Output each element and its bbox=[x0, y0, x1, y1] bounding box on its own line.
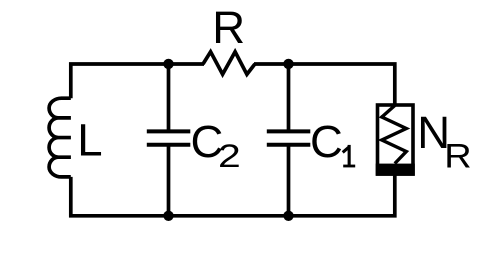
node: top-left junction bbox=[163, 59, 173, 69]
svg-text:C: C bbox=[310, 116, 343, 167]
wire: C2 branch top bbox=[167, 64, 171, 131]
wire: top rail right + down to NR box bbox=[254, 64, 395, 106]
node: top-right junction bbox=[283, 59, 293, 69]
nonlinear resistor NR: bottom bar bbox=[376, 164, 415, 176]
wire: left branch top + top rail to resistor bbox=[71, 64, 204, 98]
svg-text:R: R bbox=[212, 2, 245, 53]
node: bottom-right junction bbox=[283, 211, 293, 221]
inductor L bbox=[49, 98, 71, 177]
svg-text:L: L bbox=[77, 115, 102, 166]
nonlinear resistor NR: internal zigzag bbox=[382, 106, 407, 164]
wire: C2 branch bottom bbox=[167, 145, 171, 216]
resistor R (zigzag) bbox=[203, 52, 255, 75]
capacitor C1 bbox=[267, 131, 311, 144]
node: bottom-left junction bbox=[163, 211, 173, 221]
svg-text:R: R bbox=[444, 136, 471, 175]
capacitor C2 bbox=[147, 131, 191, 144]
wire: C1 branch bottom bbox=[287, 145, 291, 216]
nonlinear resistor NR: box bbox=[378, 105, 414, 174]
wire: C1 branch top bbox=[287, 64, 291, 131]
wire: bottom rail with left and right risers bbox=[71, 175, 395, 216]
svg-text:2: 2 bbox=[218, 138, 241, 174]
